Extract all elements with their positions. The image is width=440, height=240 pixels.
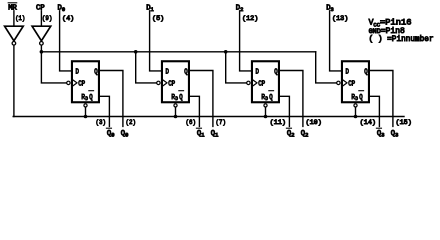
svg-text:Q: Q (89, 94, 92, 102)
svg-text:D: D (265, 96, 268, 102)
svg-text:(5): (5) (152, 15, 164, 23)
svg-text:D: D (76, 68, 79, 76)
svg-text:D: D (166, 68, 169, 76)
svg-text:D: D (346, 68, 349, 76)
svg-text:D: D (355, 96, 358, 102)
svg-text:Q: Q (359, 94, 362, 102)
svg-text:( ) =Pinnumber: ( ) =Pinnumber (369, 35, 434, 44)
svg-text:CP: CP (168, 81, 175, 89)
svg-text:(12): (12) (242, 15, 258, 23)
svg-text:(2): (2) (126, 119, 137, 127)
svg-text:(15): (15) (396, 119, 412, 127)
svg-text:CP: CP (36, 5, 45, 13)
svg-text:(13): (13) (332, 15, 348, 23)
svg-text:(14): (14) (360, 119, 376, 127)
svg-text:(9): (9) (42, 15, 53, 23)
svg-text:D: D (175, 96, 178, 102)
svg-text:(10): (10) (306, 119, 322, 127)
svg-text:D: D (85, 96, 88, 102)
svg-text:(7): (7) (216, 119, 227, 127)
svg-text:(6): (6) (186, 119, 197, 127)
svg-text:Q: Q (269, 94, 272, 102)
svg-text:Q: Q (274, 68, 277, 76)
svg-text:D: D (256, 68, 259, 76)
svg-text:Q: Q (184, 68, 187, 76)
svg-text:CP: CP (78, 81, 85, 89)
svg-text:Q: Q (364, 68, 367, 76)
svg-text:MR: MR (8, 5, 17, 13)
svg-text:(4): (4) (62, 15, 74, 23)
svg-text:Q: Q (94, 68, 97, 76)
svg-text:CP: CP (258, 81, 265, 89)
svg-text:(1): (1) (15, 15, 25, 23)
svg-text:(11): (11) (270, 119, 286, 127)
svg-text:CP: CP (348, 81, 355, 89)
svg-text:(3): (3) (96, 119, 107, 127)
svg-text:Q: Q (179, 94, 182, 102)
